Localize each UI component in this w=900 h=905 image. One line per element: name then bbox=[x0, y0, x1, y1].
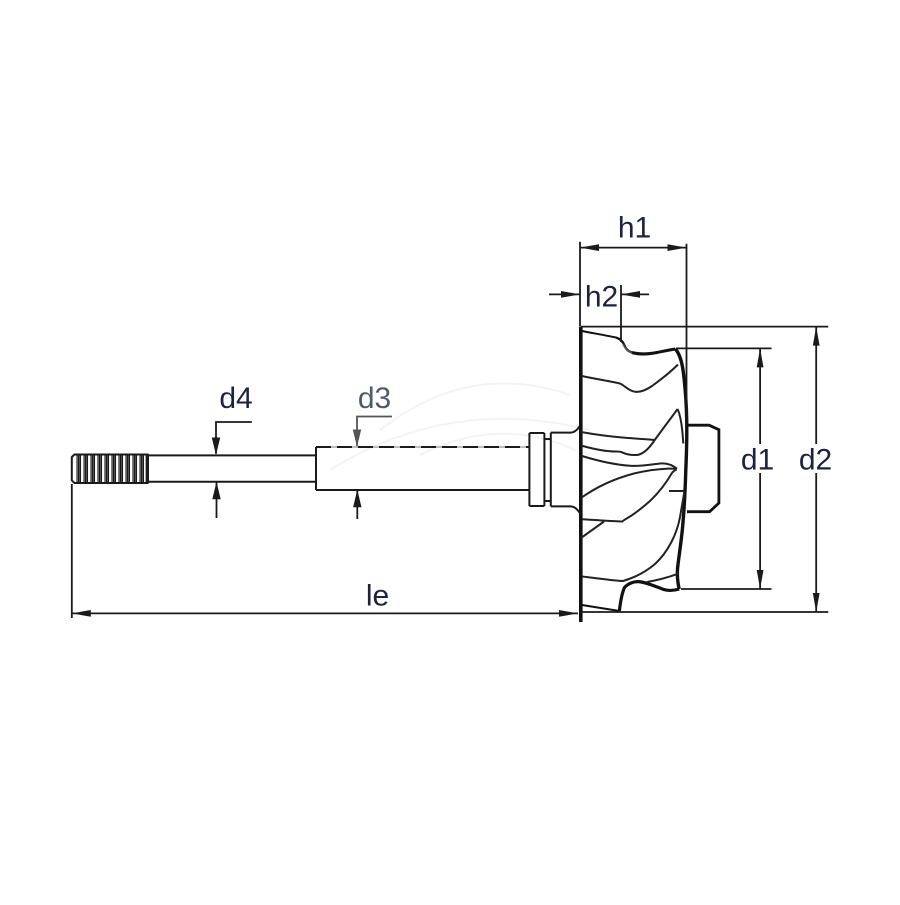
svg-text:h1: h1 bbox=[618, 212, 651, 245]
svg-text:d2: d2 bbox=[799, 444, 832, 477]
svg-text:d3: d3 bbox=[358, 382, 391, 415]
svg-text:le: le bbox=[366, 580, 389, 613]
svg-text:d1: d1 bbox=[741, 444, 774, 477]
svg-text:h2: h2 bbox=[585, 281, 618, 314]
svg-text:d4: d4 bbox=[219, 382, 252, 415]
